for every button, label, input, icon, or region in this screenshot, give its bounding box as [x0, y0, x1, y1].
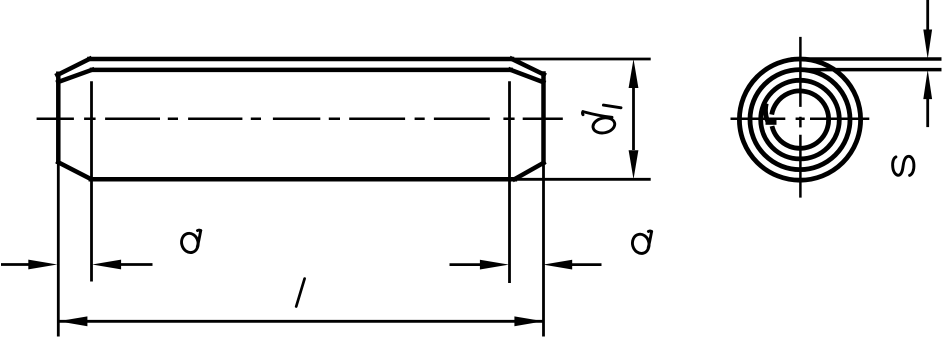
coil outer circle	[739, 59, 860, 180]
extension line pin left end	[57, 164, 60, 337]
arrow a-right outer	[480, 260, 509, 270]
dimension s line	[926, 0, 929, 127]
arrow d1 bottom	[629, 150, 639, 179]
extension line left chamfer	[90, 81, 93, 281]
extension line d1 bottom	[515, 178, 651, 181]
coil circle 3	[761, 80, 840, 159]
label s (rotated)	[893, 156, 914, 175]
pin seam line (coil edge)	[92, 68, 511, 73]
dimension a (left)	[1, 263, 153, 266]
dimension a (right)	[450, 263, 602, 266]
pin left end edge	[56, 74, 61, 162]
coil inner strip end step	[766, 120, 777, 125]
coil inner turn (arc with gap at strip end)	[772, 91, 829, 148]
arrow a-left inner	[92, 260, 121, 270]
arrow l left	[58, 316, 87, 326]
pin top-right outer chamfer	[512, 59, 544, 75]
centerline of side view (dash-dot)	[37, 117, 563, 120]
arrow s top	[923, 30, 932, 60]
label l	[296, 279, 304, 307]
pin bottom-right chamfer	[515, 163, 544, 179]
pin bottom edge	[91, 177, 515, 182]
side view: spiral pin outline	[57, 59, 544, 180]
subscript 1	[603, 105, 621, 108]
arrow l right	[514, 316, 543, 326]
dimension d1 line	[632, 88, 635, 150]
extension line right chamfer	[508, 81, 511, 283]
pin right end edge	[541, 74, 546, 163]
horizontal centerline	[731, 118, 870, 121]
arrow a-right inner	[543, 260, 572, 270]
pin top outer edge	[89, 57, 512, 62]
pin top-left inner chamfer	[58, 70, 92, 82]
arrow s bottom	[923, 70, 932, 100]
pin top-left outer chamfer	[57, 59, 90, 75]
coil circle 2	[750, 70, 850, 170]
arrow a-left outer	[28, 260, 57, 270]
extension line pin right end	[542, 164, 545, 337]
s reference lines (tangent to coils)	[791, 59, 942, 70]
arrow d1 top	[629, 59, 639, 88]
dimension l line	[58, 320, 543, 323]
end view: spiral cross-section	[739, 59, 860, 180]
label a (left)	[179, 230, 200, 254]
extension line d1 top	[512, 58, 651, 61]
pin bottom-left chamfer	[58, 162, 91, 179]
pin top-right inner chamfer	[510, 70, 543, 83]
label d1 (rotated)	[582, 105, 621, 135]
end view centerlines	[731, 37, 870, 198]
extension lines (thin)	[58, 59, 650, 337]
label a (right)	[630, 231, 651, 255]
vertical centerline	[799, 37, 802, 198]
coil spiral transition into inner end	[766, 104, 769, 123]
